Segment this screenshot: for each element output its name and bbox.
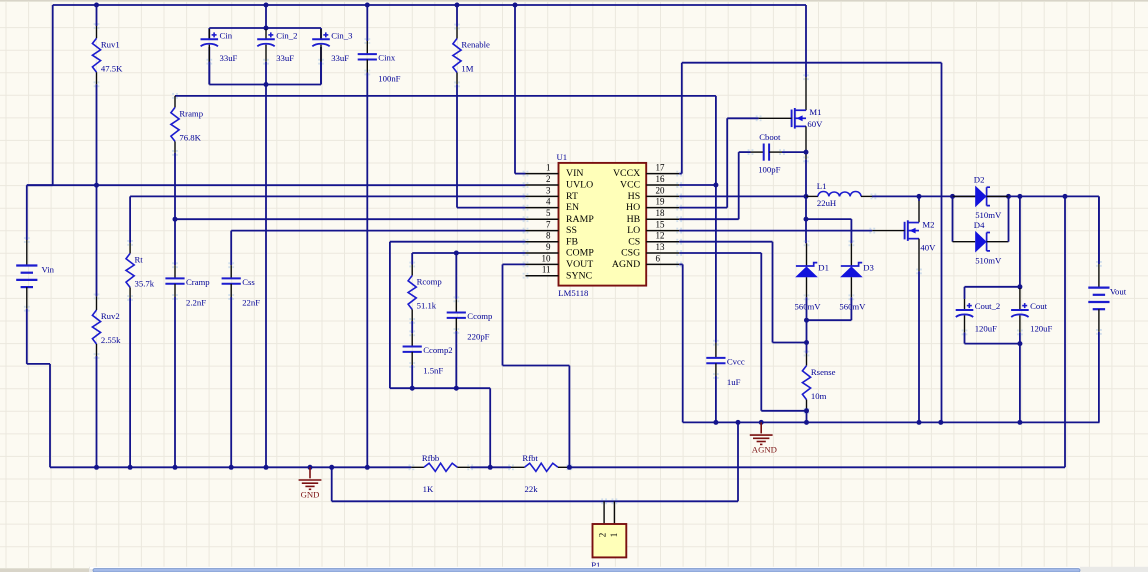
mosfet M1 60V <box>756 107 823 129</box>
wire <box>941 63 943 423</box>
svg-text:510mV: 510mV <box>975 256 1002 266</box>
svg-text:Vin: Vin <box>42 265 55 275</box>
wire <box>411 321 413 333</box>
junction <box>365 465 370 470</box>
svg-text:LO: LO <box>627 225 640 236</box>
svg-text:560mV: 560mV <box>795 302 822 312</box>
svg-text:510mV: 510mV <box>975 210 1002 220</box>
svg-text:220pF: 220pF <box>467 332 489 342</box>
junction switch node <box>804 194 809 199</box>
svg-text:1M: 1M <box>461 64 473 74</box>
pin M1 drain <box>805 77 807 110</box>
inductor L1 22uH <box>806 181 876 208</box>
capacitor Ccomp 220pF <box>447 296 493 341</box>
wire <box>727 117 758 119</box>
pin 15 LO <box>627 220 682 237</box>
wire <box>806 297 808 320</box>
svg-text:Rsense: Rsense <box>811 367 836 377</box>
svg-text:D4: D4 <box>974 220 985 230</box>
wire <box>965 343 1020 345</box>
wire <box>49 364 51 467</box>
wire <box>456 84 458 207</box>
wire VIN top rail <box>53 4 806 6</box>
junction <box>1017 420 1022 425</box>
capacitor Cvcc 1uF <box>706 340 745 387</box>
wire <box>568 366 570 468</box>
resistor Rfbb 1K <box>409 453 474 494</box>
svg-text:Rfbb: Rfbb <box>422 453 440 463</box>
resistor Rfbt 22k <box>508 453 572 494</box>
wire <box>455 331 457 388</box>
svg-text:CS: CS <box>628 236 640 247</box>
junction <box>1063 194 1068 199</box>
pin 16 VCC <box>620 174 682 191</box>
svg-text:13: 13 <box>656 242 666 252</box>
junction <box>1017 341 1022 346</box>
svg-text:RT: RT <box>566 191 578 202</box>
junction <box>1017 194 1022 199</box>
wire RAMP line to pin 5 <box>175 218 526 220</box>
resistor Rt 35.7k <box>126 240 155 301</box>
junction <box>917 194 922 199</box>
svg-text:Ruv1: Ruv1 <box>101 39 120 49</box>
pin 12 CS <box>628 231 682 248</box>
svg-text:10: 10 <box>542 253 552 263</box>
wire LO to M2 gate <box>679 230 872 232</box>
junction <box>264 465 269 470</box>
wire <box>773 342 807 344</box>
junction <box>455 3 460 8</box>
wire <box>682 62 942 64</box>
pin 5 RAMP <box>523 208 595 225</box>
wire <box>782 151 806 153</box>
wire <box>27 184 53 186</box>
svg-text:D3: D3 <box>863 262 874 272</box>
svg-text:9: 9 <box>546 242 551 252</box>
window top edge strip <box>0 0 1148 2</box>
diode D4 510mV <box>953 220 1009 266</box>
wire <box>761 410 806 412</box>
wire <box>806 411 808 423</box>
battery source Vin <box>16 237 54 312</box>
junction <box>94 3 99 8</box>
junction VOUT sense <box>567 465 572 470</box>
svg-text:22k: 22k <box>525 484 539 494</box>
svg-text:1: 1 <box>609 533 619 538</box>
wire <box>1098 196 1100 264</box>
wire SS line to pin 7 <box>231 230 525 232</box>
junction UVLO divider <box>94 183 99 188</box>
wire <box>174 219 176 265</box>
svg-text:2: 2 <box>546 174 551 184</box>
junction CSG sense <box>804 408 809 413</box>
pin M1 source <box>805 126 807 159</box>
pin 2 UVLO <box>523 174 594 191</box>
svg-text:6: 6 <box>656 253 661 263</box>
junction FB <box>488 465 493 470</box>
wire <box>332 500 738 502</box>
pin 6 AGND <box>612 253 682 270</box>
wire <box>679 218 739 220</box>
resistor Renable 1M <box>453 24 490 88</box>
svg-text:Cin_3: Cin_3 <box>331 30 352 40</box>
junction <box>329 465 334 470</box>
svg-text:L1: L1 <box>817 181 827 191</box>
junction COMP <box>454 251 459 256</box>
pin 13 CSG <box>621 242 682 259</box>
wire <box>806 320 808 353</box>
svg-text:Cvcc: Cvcc <box>727 356 745 366</box>
wire <box>715 185 717 343</box>
wire VOUT sense line <box>569 466 1065 468</box>
svg-text:1K: 1K <box>423 484 434 494</box>
wire <box>208 28 210 39</box>
junction <box>264 3 269 8</box>
svg-text:2.2nF: 2.2nF <box>186 298 206 308</box>
svg-text:1.5nF: 1.5nF <box>423 366 443 376</box>
svg-text:D1: D1 <box>818 262 829 272</box>
wire <box>679 173 682 175</box>
capacitor Cboot 100pF <box>748 132 785 174</box>
svg-text:SS: SS <box>566 225 577 236</box>
svg-text:1: 1 <box>546 163 551 173</box>
svg-text:Cboot: Cboot <box>759 132 781 142</box>
wire <box>1019 196 1021 286</box>
svg-text:5: 5 <box>546 208 551 218</box>
svg-text:20: 20 <box>656 185 666 195</box>
wire <box>772 242 774 343</box>
svg-text:VOUT: VOUT <box>566 259 593 270</box>
wire <box>455 253 457 299</box>
svg-text:VIN: VIN <box>566 168 583 179</box>
junction <box>94 465 99 470</box>
wire <box>679 241 772 243</box>
wire <box>366 5 368 41</box>
polarized capacitor Cin_2 33uF <box>257 29 297 85</box>
wire <box>805 159 807 196</box>
wire <box>320 28 322 39</box>
svg-text:HB: HB <box>627 214 641 225</box>
wire <box>52 5 54 185</box>
junction <box>759 420 764 425</box>
ground AGND <box>750 422 777 454</box>
polarized capacitor Cout_2 120uF <box>956 299 1001 344</box>
resistor Rsense 10m <box>802 351 835 414</box>
svg-text:51.1k: 51.1k <box>417 301 437 311</box>
pin M2 source <box>918 239 920 272</box>
svg-text:Rramp: Rramp <box>179 109 203 119</box>
junction <box>454 386 459 391</box>
wire <box>457 207 526 209</box>
wire <box>918 196 920 201</box>
wire <box>470 466 511 468</box>
wire COMP line to pin 9 <box>412 252 525 254</box>
wire <box>918 271 920 422</box>
wire <box>850 219 852 243</box>
svg-text:47.5K: 47.5K <box>101 63 123 73</box>
junction <box>917 420 922 425</box>
wire <box>737 422 739 501</box>
wire <box>96 84 98 296</box>
svg-text:12: 12 <box>656 231 665 241</box>
wire <box>331 467 333 501</box>
svg-text:4: 4 <box>546 197 551 207</box>
svg-text:100nF: 100nF <box>378 74 400 84</box>
wire <box>27 363 50 365</box>
wire <box>1064 196 1066 467</box>
junction <box>264 82 269 87</box>
wire <box>265 5 267 28</box>
svg-text:FB: FB <box>566 236 578 247</box>
svg-text:VCC: VCC <box>620 180 640 191</box>
wire HS to switch node <box>679 195 806 197</box>
junction VCC <box>713 183 718 188</box>
wire <box>679 184 716 186</box>
wire <box>265 85 267 468</box>
wire <box>738 152 740 219</box>
wire <box>411 253 413 265</box>
svg-text:EN: EN <box>566 202 579 213</box>
wire switch/output line <box>872 195 1099 197</box>
junction <box>950 194 955 199</box>
svg-text:HS: HS <box>628 191 641 202</box>
wire <box>682 264 684 422</box>
svg-text:16: 16 <box>656 174 666 184</box>
svg-text:60V: 60V <box>807 119 823 129</box>
svg-text:1uF: 1uF <box>727 377 741 387</box>
diode D2 510mV <box>953 175 1009 221</box>
svg-text:VCCX: VCCX <box>613 168 640 179</box>
svg-text:22uH: 22uH <box>817 198 837 208</box>
resistor Rramp 76.8K <box>171 93 203 156</box>
wire GND rail <box>50 466 411 468</box>
wire <box>503 365 570 367</box>
svg-text:19: 19 <box>656 197 666 207</box>
svg-text:Ccomp: Ccomp <box>467 311 492 321</box>
wire FB line to pin 8 <box>390 241 526 243</box>
svg-text:Rfbt: Rfbt <box>522 453 538 463</box>
svg-text:Ruv2: Ruv2 <box>101 311 120 321</box>
wire <box>679 263 683 265</box>
svg-text:Cout_2: Cout_2 <box>975 301 1001 311</box>
junction <box>173 465 178 470</box>
svg-text:18: 18 <box>656 208 666 218</box>
wire <box>715 376 717 422</box>
polarized capacitor Cin_3 33uF <box>312 29 352 85</box>
wire <box>129 298 131 467</box>
op-amp U1 LM5118 controller IC <box>557 152 647 298</box>
svg-text:HO: HO <box>626 202 640 213</box>
wire <box>230 297 232 467</box>
svg-text:Cinx: Cinx <box>378 53 396 63</box>
wire <box>129 196 131 243</box>
wire VOUT pin 10 <box>503 263 526 265</box>
pin 19 HO <box>626 197 682 214</box>
wire AGND rail <box>683 421 1100 423</box>
svg-text:100pF: 100pF <box>758 165 780 175</box>
polarized capacitor Cout 120uF <box>1011 288 1052 344</box>
wire <box>26 309 28 364</box>
svg-text:Rt: Rt <box>135 255 144 265</box>
svg-text:120uF: 120uF <box>1030 324 1052 334</box>
junction <box>1017 284 1022 289</box>
resistor Ruv1 47.5K <box>92 23 123 87</box>
wire <box>807 319 852 321</box>
battery source Vout <box>1088 261 1126 335</box>
wire VCC rail <box>175 95 716 97</box>
wire <box>805 5 807 77</box>
pin 1 VIN <box>523 163 584 180</box>
junction RAMP <box>173 217 178 222</box>
svg-text:22nF: 22nF <box>242 298 260 308</box>
svg-text:2.55k: 2.55k <box>101 335 121 345</box>
wire <box>805 219 807 243</box>
junction <box>804 420 809 425</box>
resistor Rcomp 51.1k <box>408 262 442 324</box>
junction <box>229 465 234 470</box>
wire <box>679 207 727 209</box>
junction CS sense <box>804 340 809 345</box>
wire <box>390 387 490 389</box>
svg-text:2: 2 <box>597 533 607 538</box>
wire <box>411 365 413 388</box>
capacitor Cinx 100nF <box>358 38 401 83</box>
svg-text:GND: GND <box>301 490 320 500</box>
svg-text:SYNC: SYNC <box>566 270 592 281</box>
wire <box>679 252 761 254</box>
wire input cap frame bottom <box>209 84 321 86</box>
svg-text:8: 8 <box>546 231 551 241</box>
junction <box>713 420 718 425</box>
pin 4 EN <box>523 197 579 214</box>
junction <box>1006 194 1011 199</box>
wire input cap frame top <box>209 27 321 29</box>
svg-text:Cramp: Cramp <box>186 277 210 287</box>
wire <box>681 63 683 174</box>
polarized capacitor Cin 33uF <box>201 29 238 85</box>
wire <box>715 96 717 185</box>
pin 18 HB <box>627 208 683 225</box>
wire <box>514 5 516 174</box>
wire <box>174 297 176 467</box>
junction <box>128 465 133 470</box>
wire <box>964 287 966 299</box>
wire <box>366 73 368 468</box>
pin 10 VOUT <box>523 253 594 270</box>
wire <box>389 242 391 389</box>
svg-text:Vout: Vout <box>1110 287 1127 297</box>
svg-text:40V: 40V <box>920 242 936 252</box>
junction <box>736 420 741 425</box>
junction <box>365 3 370 8</box>
junction <box>938 420 943 425</box>
junction <box>513 3 518 8</box>
svg-text:11: 11 <box>542 265 551 275</box>
svg-text:560mV: 560mV <box>839 302 866 312</box>
capacitor Ccomp2 1.5nF <box>403 330 453 375</box>
junction D3 branch <box>804 217 809 222</box>
wire <box>208 47 210 85</box>
mosfet M2 40V <box>869 219 936 252</box>
wire RT line to pin 3 <box>130 195 525 197</box>
svg-text:35.7k: 35.7k <box>135 279 155 289</box>
svg-text:U1: U1 <box>557 152 568 162</box>
svg-text:Renable: Renable <box>461 40 490 50</box>
wire <box>805 196 807 219</box>
junction <box>308 465 313 470</box>
svg-text:Cout: Cout <box>1030 301 1047 311</box>
svg-text:COMP: COMP <box>566 248 594 259</box>
wire <box>456 5 458 27</box>
svg-text:33uF: 33uF <box>220 53 238 63</box>
bottom scrollbar <box>0 567 1148 572</box>
wire UVLO line to pin 2 <box>27 184 526 186</box>
wire <box>320 47 322 85</box>
junction D1 D3 bottom node <box>804 318 809 323</box>
pin 20 HS <box>628 185 682 202</box>
connector P1 <box>591 498 626 570</box>
wire <box>965 286 1020 288</box>
pin 3 RT <box>523 185 578 202</box>
wire <box>230 231 232 266</box>
capacitor Cramp 2.2nF <box>165 262 209 307</box>
wire <box>739 151 751 153</box>
junction Cboot / M1 source <box>804 150 809 155</box>
wire <box>806 218 851 220</box>
svg-text:7: 7 <box>546 220 551 230</box>
svg-text:Css: Css <box>242 277 255 287</box>
svg-text:76.8K: 76.8K <box>179 133 201 143</box>
svg-text:3: 3 <box>546 185 551 195</box>
wire <box>26 185 28 240</box>
wire <box>952 196 954 241</box>
pin 9 COMP <box>523 242 595 259</box>
wire <box>502 264 504 365</box>
ground GND <box>299 467 322 499</box>
junction <box>264 26 269 31</box>
svg-text:M2: M2 <box>922 219 934 229</box>
wire <box>96 5 98 26</box>
diode D1 560mV <box>795 240 829 311</box>
capacitor Css 22nF <box>222 262 261 307</box>
svg-text:120uF: 120uF <box>975 324 997 334</box>
wire <box>174 153 176 219</box>
svg-text:15: 15 <box>656 220 666 230</box>
svg-text:AGND: AGND <box>752 445 777 455</box>
wire <box>96 356 98 467</box>
svg-text:Cin_2: Cin_2 <box>276 30 297 40</box>
svg-text:UVLO: UVLO <box>566 180 593 191</box>
wire <box>1008 196 1010 241</box>
svg-text:33uF: 33uF <box>331 53 349 63</box>
svg-text:M1: M1 <box>809 107 821 117</box>
svg-text:17: 17 <box>656 163 666 173</box>
wire <box>515 173 526 175</box>
svg-text:33uF: 33uF <box>276 53 294 63</box>
pin 11 SYNC <box>523 265 593 282</box>
wire <box>1019 344 1021 423</box>
wire <box>489 388 491 467</box>
svg-text:D2: D2 <box>974 175 985 185</box>
pin 17 VCCX <box>613 163 682 180</box>
wire <box>1098 196 1100 264</box>
svg-text:LM5118: LM5118 <box>558 288 589 298</box>
svg-text:Cin: Cin <box>220 30 233 40</box>
wire <box>850 297 852 320</box>
svg-text:10m: 10m <box>811 391 827 401</box>
svg-text:Ccomp2: Ccomp2 <box>423 345 452 355</box>
svg-text:CSG: CSG <box>621 248 640 259</box>
